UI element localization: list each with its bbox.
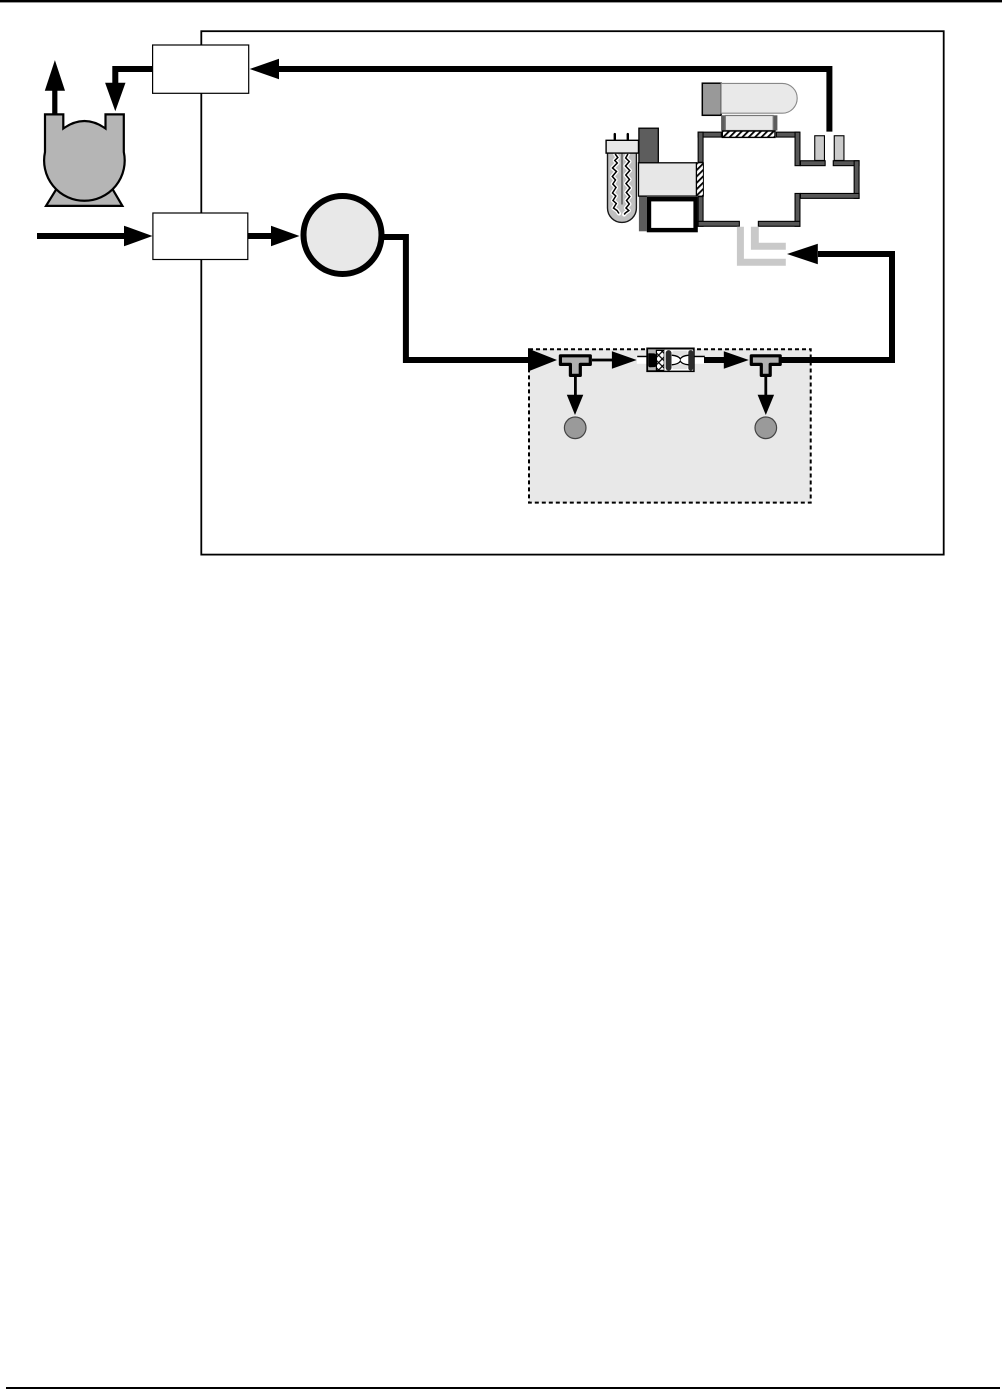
restrictor venturi curve bottom bbox=[672, 361, 689, 365]
manifold wall top-left bbox=[698, 132, 721, 137]
detector light box bbox=[639, 163, 697, 196]
lamp cap bbox=[606, 140, 638, 153]
motor neck side bar left bbox=[721, 115, 725, 130]
manifold wall right lower bbox=[795, 193, 800, 226]
wire box1 to pump elbow bbox=[115, 69, 152, 84]
dark strip below bbox=[639, 197, 647, 232]
manifold wall right upper bbox=[795, 132, 800, 166]
manifold ext top wall left part bbox=[800, 161, 825, 166]
wire feedback line (manifold port to box1) bbox=[278, 69, 829, 132]
pump exhaust arrow up bbox=[52, 89, 57, 115]
port circle 2 bbox=[755, 417, 777, 439]
arrowhead down into pump bbox=[105, 83, 125, 112]
port circle 1 bbox=[564, 417, 586, 439]
lamp filament left bbox=[612, 154, 619, 214]
restrictor inlet thin line bbox=[637, 356, 647, 358]
wire T1 to restrictor bbox=[592, 359, 613, 362]
wire restrictor to T2 bbox=[704, 357, 725, 363]
restrictor venturi cap bottom bbox=[672, 364, 688, 369]
reference cell box (black border) bbox=[649, 199, 696, 230]
manifold wall top-right bbox=[776, 132, 799, 137]
motor neck bbox=[725, 116, 773, 131]
circle pump bbox=[304, 196, 382, 274]
dark block beside lamp bbox=[639, 128, 658, 163]
motor body capsule bbox=[721, 83, 797, 113]
inlet port bar right bbox=[834, 136, 844, 161]
hatch strip top bbox=[722, 131, 775, 137]
hatch strip left bbox=[696, 163, 703, 196]
page top rule bbox=[0, 0, 1002, 2]
wire restrictor out bbox=[694, 356, 705, 358]
manifold ext bottom wall bbox=[800, 193, 859, 198]
lamp pins bbox=[614, 133, 616, 141]
lamp center electrode bbox=[621, 153, 622, 205]
restrictor venturi curve top bbox=[672, 355, 689, 359]
box1 bbox=[153, 45, 249, 93]
lamp tube bbox=[608, 151, 637, 222]
restrictor crosshatch filter bbox=[656, 350, 664, 370]
arrowhead into outlet elbow bbox=[787, 244, 818, 264]
tee T2 bbox=[751, 356, 780, 376]
manifold bottom wall left bbox=[698, 221, 739, 226]
arrowhead into box1 bbox=[250, 59, 279, 79]
box2 bbox=[153, 213, 248, 260]
inlet arrow into box2 bbox=[37, 233, 124, 239]
wire circle to T1 bbox=[380, 237, 529, 360]
restrictor pill left bbox=[666, 350, 672, 371]
tee T1 bbox=[560, 356, 590, 376]
restrictor inlet white casing bbox=[637, 355, 647, 364]
drain arrow from T1 bbox=[574, 375, 577, 395]
arrowhead into T1 bbox=[528, 349, 557, 372]
enclosure box bbox=[201, 31, 943, 554]
motor gray block bbox=[702, 83, 721, 115]
manifold wall left lower bbox=[698, 197, 703, 227]
restrictor white cell bbox=[664, 350, 693, 371]
restrictor venturi cap top bbox=[672, 351, 688, 356]
pump body bbox=[44, 114, 125, 200]
outlet elbow outer bbox=[737, 227, 786, 266]
manifold wall left upper bbox=[698, 132, 703, 162]
wire T2 up to elbow arrow bbox=[781, 254, 893, 360]
manifold bottom wall right bbox=[758, 221, 800, 226]
manifold ext right wall bbox=[854, 161, 859, 199]
outlet elbow inner bbox=[751, 227, 786, 250]
inlet port bar left bbox=[815, 136, 825, 161]
lamp filament right bbox=[624, 154, 630, 215]
restrictor pill right bbox=[688, 350, 693, 371]
manifold ext top wall right part bbox=[833, 161, 859, 166]
restrictor outlet white casing bbox=[694, 355, 704, 364]
drain arrow from T2 bbox=[764, 375, 767, 395]
motor neck side bar right bbox=[773, 115, 777, 130]
restrictor black blob bbox=[648, 353, 657, 367]
restrictor body bbox=[647, 348, 694, 371]
dashed chamber box bbox=[529, 349, 811, 502]
wire box2 to circle pump bbox=[248, 233, 272, 239]
pump base stand bbox=[46, 184, 122, 206]
page bottom rule bbox=[6, 1387, 1000, 1389]
